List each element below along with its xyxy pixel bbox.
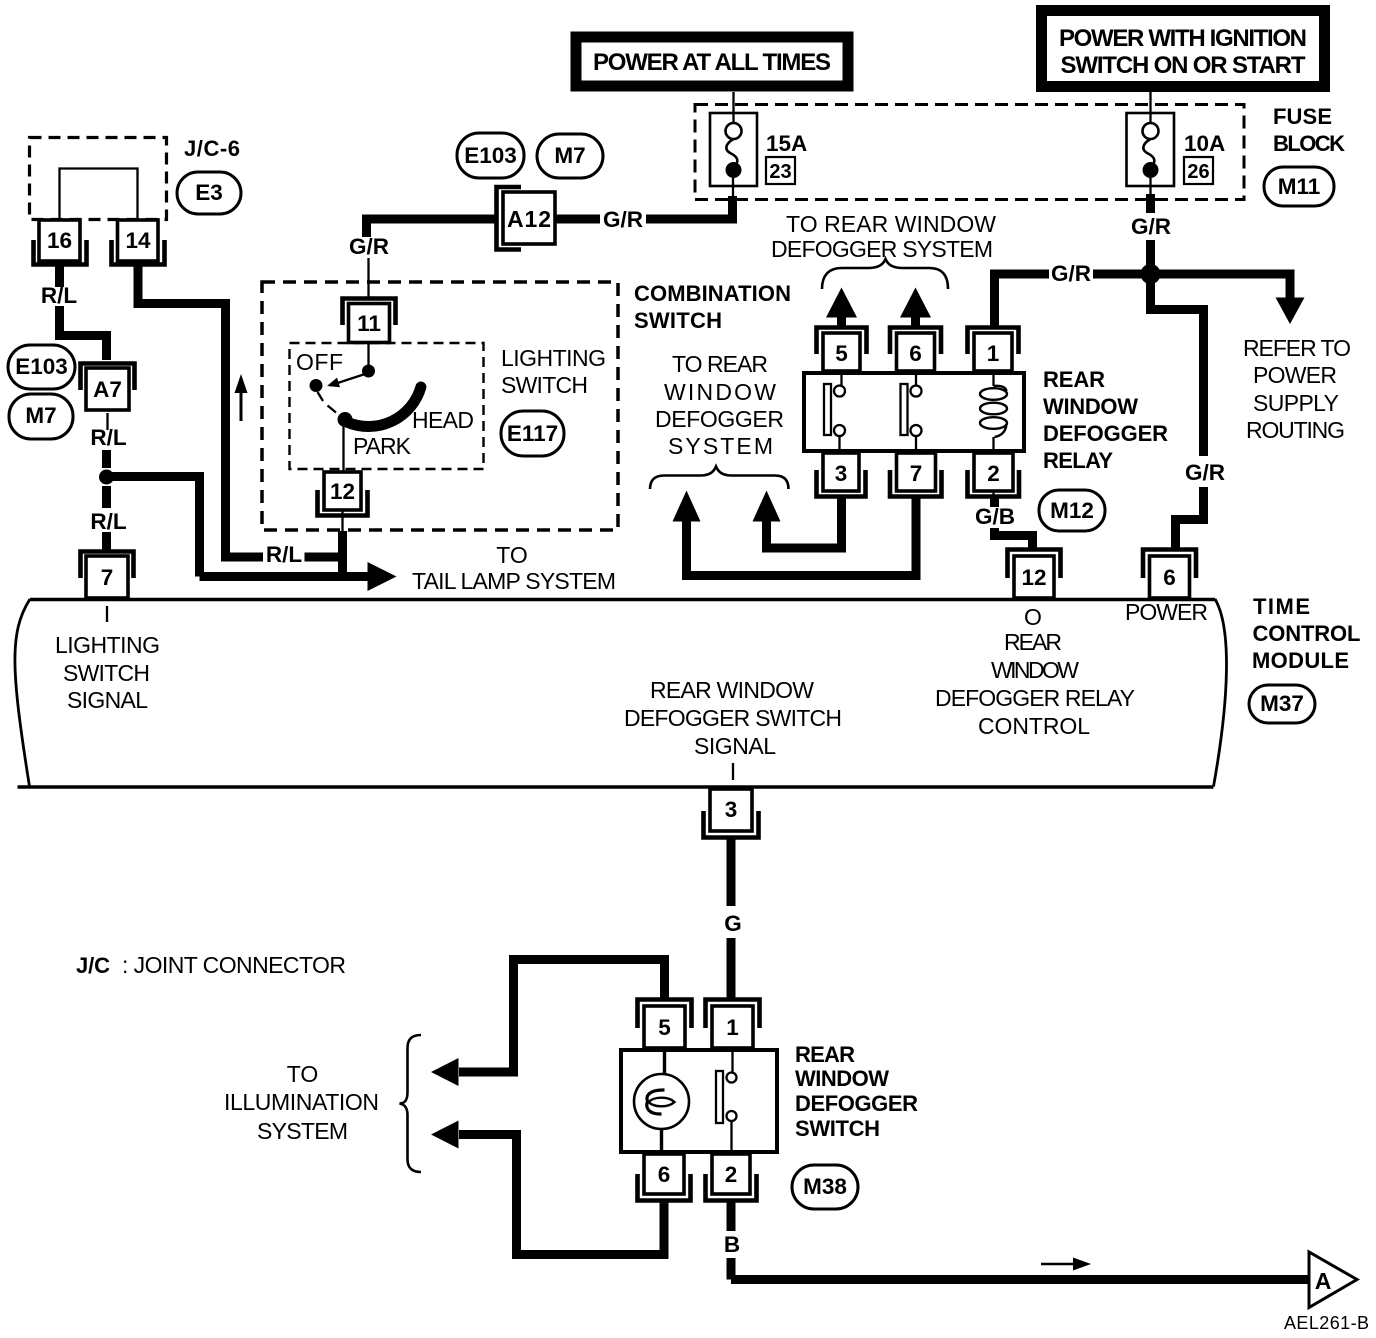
svg-text:O: O [1024,604,1042,630]
J/C-6 dashed box [30,138,167,220]
wire banner1 to fuse 23 [732,92,734,123]
relay contact 5-3 [824,371,845,453]
connector 3 time control module [704,789,759,838]
svg-text:SIGNAL: SIGNAL [694,733,776,759]
wire thin fuse 23 bottom [732,178,734,197]
wire arc to connector 12 [342,424,344,473]
banner POWER WITH IGNITION SWITCH ON OR START [1042,11,1325,87]
connector badge E103 [8,345,75,389]
label 23 [766,157,795,184]
svg-text:7: 7 [101,565,114,590]
svg-text:: JOINT CONNECTOR: : JOINT CONNECTOR [122,952,346,978]
lighting switch inner dashed box [290,343,484,469]
svg-text:ROUTING: ROUTING [1246,417,1345,443]
arrow up from relay 5 [826,288,857,329]
wire banner2 to fuse 26 [1149,92,1151,123]
connector 16 [34,220,87,265]
connector 12 time control module [1008,550,1061,599]
svg-text:G/R: G/R [1131,214,1171,239]
svg-text:M12: M12 [1050,498,1094,523]
connector A7 [81,364,135,411]
svg-text:DEFOGGER: DEFOGGER [1043,421,1168,446]
wire to connector 7 [102,532,111,551]
svg-text:2: 2 [987,461,1000,486]
svg-text:26: 26 [1187,161,1209,183]
label TO REAR WINDOW DEFOGGER SYSTEM (top) [771,211,996,262]
svg-text:DEFOGGER: DEFOGGER [795,1091,918,1116]
svg-text:B: B [724,1232,740,1257]
relay coil [980,371,1007,453]
svg-text:LIGHTING: LIGHTING [501,345,606,371]
svg-text:12: 12 [1021,565,1046,590]
svg-text:MODULE: MODULE [1252,648,1349,673]
relay contact 6-7 [901,371,922,453]
fuse 23 15A [710,113,757,186]
wire segment above junction [102,450,111,468]
svg-text:BLOCK: BLOCK [1273,131,1345,156]
svg-text:M7: M7 [25,403,56,428]
svg-text:3: 3 [725,797,738,822]
svg-text:J/C-6: J/C-6 [184,136,240,161]
label 26 [1184,157,1213,184]
connector 7 relay [890,453,942,497]
wire fuse 26 down (G/R) [1149,178,1151,197]
svg-text:REAR: REAR [795,1042,855,1067]
connector 12 [318,472,368,516]
direction arrow right [1041,1258,1091,1271]
svg-text:TO REAR WINDOW: TO REAR WINDOW [786,211,996,237]
combination switch dashed box [262,282,618,530]
wire switch 6 illumination loop with arrow [431,1121,664,1260]
brace illumination [400,1035,422,1172]
connector badge M37 [1249,685,1315,723]
svg-text:J/C: J/C [76,953,110,978]
svg-text:REFER TO: REFER TO [1243,335,1351,361]
junction node [99,470,114,485]
wire relay 3 to defogger arrow [753,491,842,553]
brace top defogger system [822,259,948,289]
svg-text:REAR: REAR [1004,629,1062,655]
svg-text:G/R: G/R [603,207,643,232]
label REAR WINDOW DEFOGGER RELAY [1043,367,1168,473]
svg-text:WINDOW: WINDOW [991,657,1079,683]
direction arrow up [235,374,248,421]
connector 5 switch [638,1000,692,1049]
connector 14 [112,220,165,265]
svg-text:FUSE: FUSE [1273,104,1332,129]
off-page connector A [1309,1252,1357,1308]
rotary switch OFF contact node [310,379,323,392]
wire junction branch to tail lamp line [107,472,200,577]
wire junction right refer arrow [1150,270,1305,325]
connector 6 time control module [1143,550,1196,599]
connector badge E3 [177,172,241,214]
svg-text:SWITCH: SWITCH [63,660,150,686]
rear window defogger switch body M38 [621,1050,777,1152]
label REAR WINDOW DEFOGGER RELAY CONTROL [935,629,1135,739]
connector badge M7 [9,394,73,439]
wire junction left to relay 1 [995,270,1151,328]
svg-text:G/R: G/R [349,234,389,259]
wire segment below junction [102,486,111,508]
svg-text:DEFOGGER SYSTEM: DEFOGGER SYSTEM [771,236,993,262]
label TO REAR WINDOW DEFOGGER SYSTEM (left) [655,351,784,459]
connector badge M11 [1264,167,1334,206]
svg-text:DEFOGGER RELAY: DEFOGGER RELAY [935,685,1135,711]
svg-text:REAR WINDOW: REAR WINDOW [650,677,814,703]
connector 1 switch [706,1000,760,1049]
svg-text:A: A [1315,1268,1332,1294]
wire relay 7 to defogger arrow [673,491,917,581]
rotary PARK contact node [338,412,353,427]
wire switch 2 to A (B) [731,1201,1309,1280]
connector badge M38 [792,1165,858,1209]
svg-text:CONTROL: CONTROL [978,713,1090,739]
svg-text:6: 6 [909,341,922,366]
wire A12 right toward fuse 23 [555,196,733,224]
svg-text:14: 14 [125,228,151,253]
label COMBINATION SWITCH [634,281,791,333]
svg-text:OFF: OFF [296,349,343,375]
node tick above connector 3 [732,763,734,780]
svg-text:SYSTEM: SYSTEM [257,1118,348,1144]
connector badge E117 [501,411,564,456]
connector 1 relay [968,328,1019,372]
wire connector 11 to pivot [367,342,369,365]
svg-text:G/B: G/B [975,504,1015,529]
svg-text:23: 23 [769,161,791,183]
svg-text:REAR: REAR [1043,367,1105,392]
svg-text:POWER: POWER [1253,362,1337,388]
svg-text:POWER WITH IGNITION: POWER WITH IGNITION [1059,25,1307,52]
svg-text:TO: TO [287,1061,319,1087]
svg-text:12: 12 [330,479,355,504]
connector 11 [343,299,396,343]
wire junction down to connector 6 (G/R) [1151,274,1204,551]
svg-text:6: 6 [658,1162,671,1187]
rotary switch wiper arm [327,374,365,387]
svg-text:11: 11 [357,311,381,336]
svg-text:SWITCH: SWITCH [634,308,722,333]
svg-text:E103: E103 [15,354,68,379]
label LIGHTING SWITCH SIGNAL [55,632,160,713]
label TO TAIL LAMP SYSTEM [412,542,616,594]
label TO ILLUMINATION SYSTEM [224,1061,379,1144]
svg-text:DEFOGGER SWITCH: DEFOGGER SWITCH [624,705,842,731]
svg-text:R/L: R/L [266,542,303,567]
svg-text:HEAD: HEAD [412,407,474,433]
junction node G/R [1141,264,1161,284]
svg-text:DEFOGGER: DEFOGGER [655,406,784,432]
time control module M37 body [15,599,1227,787]
label TIME CONTROL MODULE [1252,594,1361,673]
svg-text:10A: 10A [1184,131,1225,156]
svg-text:POWER: POWER [1125,599,1208,625]
svg-text:E103: E103 [464,143,517,168]
connector A12 [497,187,556,250]
banner POWER AT ALL TIMES [576,37,848,86]
svg-text:E3: E3 [195,180,223,205]
svg-text:WINDOW: WINDOW [664,379,776,405]
rotary HEAD PARK contact arc [347,387,421,427]
rotary switch pivot node [362,365,375,378]
svg-text:LIGHTING: LIGHTING [55,632,160,658]
svg-text:A12: A12 [507,206,551,232]
svg-text:M7: M7 [554,143,585,168]
fuse block M11 dashed box [695,105,1244,200]
svg-text:ILLUMINATION: ILLUMINATION [224,1089,379,1115]
wire A7 down segment [106,413,108,430]
svg-text:TO REAR: TO REAR [672,351,768,377]
label REFER TO POWER SUPPLY ROUTING [1243,335,1351,443]
arrow up from relay 6 [900,288,931,329]
svg-text:16: 16 [47,228,72,253]
connector badge E103 [457,133,524,178]
wire A12 left to lighting switch [367,215,498,238]
svg-text:SWITCH: SWITCH [501,372,588,398]
svg-text:6: 6 [1163,565,1176,590]
svg-text:POWER AT ALL TIMES: POWER AT ALL TIMES [593,49,831,76]
svg-text:CONTROL: CONTROL [1253,621,1361,646]
svg-text:2: 2 [725,1162,738,1187]
connector 6 relay [890,328,941,372]
svg-text:15A: 15A [766,131,807,156]
connector 6 switch [638,1154,691,1201]
label J/C JOINT CONNECTOR [76,952,346,978]
relay body M12 [804,373,1024,451]
connector 2 relay [968,453,1020,497]
label FUSE BLOCK [1273,104,1345,156]
svg-text:WINDOW: WINDOW [795,1066,889,1091]
illumination lamp [634,1048,689,1154]
joint connector bus [60,169,138,221]
connector badge M12 [1039,490,1105,531]
svg-text:M38: M38 [803,1174,847,1199]
svg-text:WINDOW: WINDOW [1043,394,1138,419]
svg-text:TIME: TIME [1253,594,1310,619]
svg-text:SWITCH ON OR START: SWITCH ON OR START [1061,52,1306,79]
svg-text:5: 5 [835,341,848,366]
brace left defogger system [650,467,789,490]
svg-text:R/L: R/L [90,509,127,534]
svg-text:7: 7 [910,461,923,486]
connector 7 time control module [81,552,134,599]
svg-text:G/R: G/R [1051,261,1091,286]
rotary dashed travel hint [318,392,337,413]
svg-text:E117: E117 [507,421,558,446]
svg-text:R/L: R/L [41,283,78,308]
wire thin into connector 11 [367,258,369,300]
label LIGHTING SWITCH [501,345,606,398]
node tick under connector 7 [106,606,108,622]
wire connector 14 to tail lamp (R/L) [138,264,343,557]
svg-text:SIGNAL: SIGNAL [67,687,148,713]
label REAR WINDOW DEFOGGER SWITCH [795,1042,918,1141]
svg-text:M37: M37 [1260,691,1304,716]
wire connector 3 to switch 1 (G) [727,838,736,1002]
svg-text:COMBINATION: COMBINATION [634,281,791,306]
svg-text:M11: M11 [1278,174,1321,199]
svg-text:5: 5 [658,1015,671,1040]
svg-text:RELAY: RELAY [1043,448,1113,473]
connector 5 relay [817,328,867,372]
connector 3 relay [817,453,866,497]
wire relay 2 to connector 12 (G/B) [994,491,1033,550]
wire tail lamp feed with arrow [200,562,397,591]
svg-text:TO: TO [496,542,528,568]
fuse 26 10A [1127,113,1175,186]
svg-text:1: 1 [987,341,1000,366]
svg-text:A7: A7 [93,377,122,402]
svg-text:G: G [724,911,742,936]
wire switch 5 illumination loop with arrow [431,955,665,1086]
connector 2 switch [706,1154,757,1201]
wire connector 12 down [341,510,343,534]
svg-text:1: 1 [726,1015,739,1040]
label REAR WINDOW DEFOGGER SWITCH SIGNAL [624,677,842,759]
svg-text:TAIL LAMP SYSTEM: TAIL LAMP SYSTEM [412,568,616,594]
svg-text:SUPPLY: SUPPLY [1253,390,1339,416]
svg-text:PARK: PARK [353,433,412,459]
defogger switch contact [716,1048,737,1154]
svg-text:G/R: G/R [1185,460,1225,485]
svg-text:3: 3 [835,461,848,486]
svg-text:AEL261-B: AEL261-B [1284,1313,1369,1333]
wire connector 16 to A7 (R/L) [55,262,111,360]
svg-text:SWITCH: SWITCH [795,1116,880,1141]
connector badge M7 [537,134,603,178]
